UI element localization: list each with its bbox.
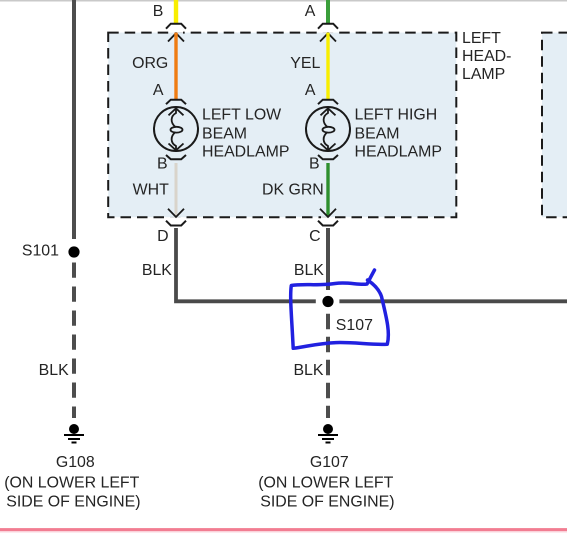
svg-text:G108: G108 (56, 454, 95, 471)
svg-text:LEFT: LEFT (462, 30, 501, 47)
svg-text:BEAM: BEAM (202, 125, 247, 142)
svg-text:BLK: BLK (142, 262, 172, 279)
svg-text:S101: S101 (22, 243, 59, 260)
svg-text:A: A (305, 3, 316, 20)
svg-text:HEAD-: HEAD- (462, 48, 511, 65)
svg-text:LAMP: LAMP (462, 66, 505, 83)
svg-text:(ON LOWER LEFT: (ON LOWER LEFT (4, 475, 139, 492)
svg-text:D: D (157, 228, 168, 245)
svg-text:ORG: ORG (132, 55, 168, 72)
svg-text:(ON LOWER LEFT: (ON LOWER LEFT (258, 475, 393, 492)
svg-text:SIDE OF ENGINE): SIDE OF ENGINE) (6, 494, 140, 511)
svg-text:BLK: BLK (294, 262, 324, 279)
svg-text:WHT: WHT (133, 182, 169, 199)
svg-text:G107: G107 (310, 454, 349, 471)
svg-text:A: A (153, 82, 164, 99)
svg-text:YEL: YEL (290, 55, 320, 72)
svg-text:BLK: BLK (39, 362, 69, 379)
svg-text:LEFT LOW: LEFT LOW (202, 107, 281, 124)
svg-text:LEFT HIGH: LEFT HIGH (355, 107, 438, 124)
svg-text:A: A (305, 82, 316, 99)
svg-text:SIDE OF ENGINE): SIDE OF ENGINE) (260, 494, 394, 511)
svg-text:BLK: BLK (293, 362, 323, 379)
svg-text:S107: S107 (336, 317, 373, 334)
svg-text:BEAM: BEAM (355, 125, 400, 142)
svg-text:B: B (157, 156, 168, 173)
svg-text:HEADLAMP: HEADLAMP (355, 144, 442, 161)
svg-text:B: B (153, 3, 164, 20)
svg-text:HEADLAMP: HEADLAMP (202, 144, 289, 161)
svg-text:B: B (309, 156, 320, 173)
svg-text:C: C (309, 228, 320, 245)
svg-text:DK GRN: DK GRN (262, 182, 324, 199)
